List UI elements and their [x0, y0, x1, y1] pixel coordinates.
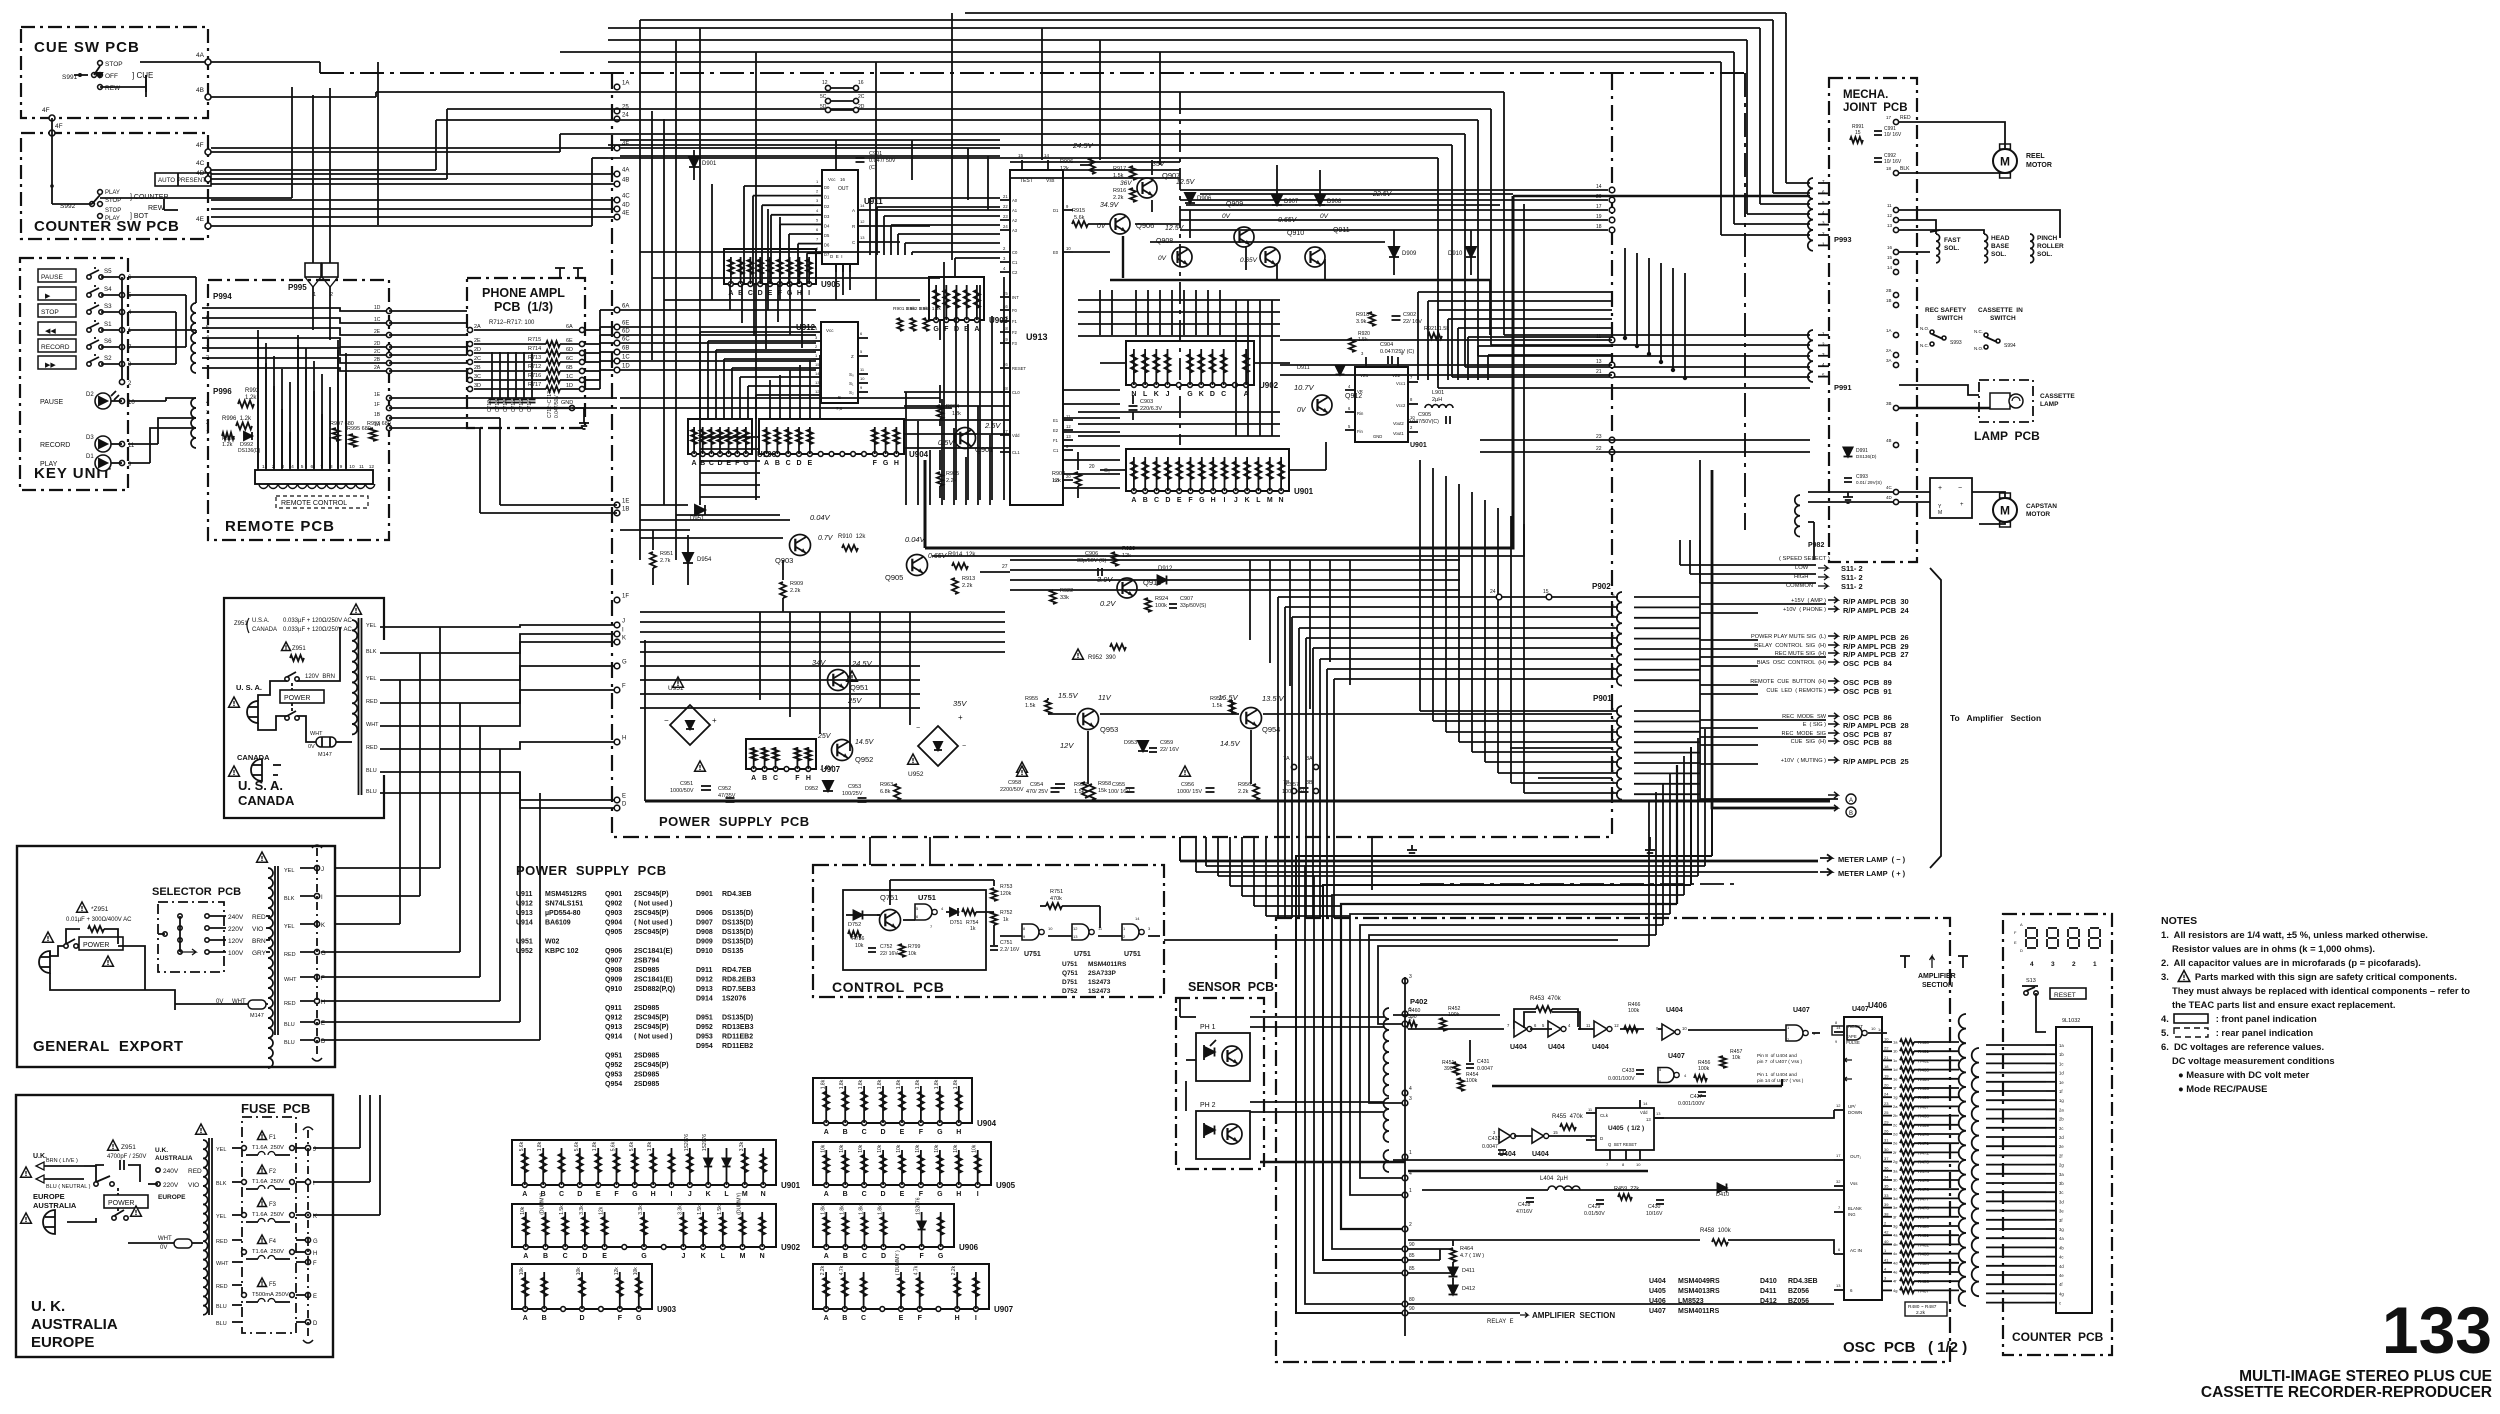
svg-text:20: 20	[1089, 464, 1095, 470]
svg-text:1a: 1a	[2059, 1043, 2064, 1048]
OSC PCB board outline	[1276, 918, 1950, 1362]
svg-text:1c: 1c	[2059, 1061, 2063, 1066]
svg-text:D2: D2	[86, 392, 94, 398]
IC U911	[822, 170, 858, 264]
svg-text:2: 2	[2072, 961, 2076, 968]
svg-text:RED: RED	[188, 1168, 202, 1175]
svg-text:RD4.7EB: RD4.7EB	[722, 967, 752, 974]
svg-text:REEL: REEL	[2026, 153, 2045, 160]
svg-text:RD11EB2: RD11EB2	[722, 1043, 753, 1050]
svg-text:12k: 12k	[599, 1206, 605, 1215]
svg-text:U906: U906	[959, 1243, 979, 1252]
svg-text:RELAY E: RELAY E	[1487, 1319, 1513, 1325]
PHONE AMPL PCB board outline	[467, 278, 585, 428]
diode D911	[1336, 366, 1345, 375]
svg-text:A: A	[2020, 922, 2023, 927]
bridge U951	[670, 705, 710, 745]
svg-text:PINCH: PINCH	[2037, 235, 2058, 242]
terminal 17 RED	[1893, 119, 1898, 124]
remote internal rows	[202, 308, 386, 311]
resistor array U907	[746, 739, 816, 769]
inverter U404 a	[1514, 1021, 1527, 1037]
svg-text:16: 16	[1887, 245, 1893, 250]
svg-text:M: M	[1267, 497, 1273, 504]
svg-text:4c: 4c	[2059, 1255, 2063, 1260]
svg-text:YEL: YEL	[216, 1147, 226, 1153]
svg-text:1.5k: 1.5k	[1025, 703, 1036, 709]
svg-text:1.8k: 1.8k	[592, 1141, 598, 1151]
svg-text:C956: C956	[1181, 782, 1194, 788]
svg-text:F: F	[795, 775, 800, 782]
svg-text:C1: C1	[1012, 260, 1018, 265]
svg-text:D911: D911	[696, 967, 712, 974]
svg-text:N.O.: N.O.	[1974, 346, 1983, 351]
svg-text:I: I	[975, 1315, 977, 1322]
svg-text:B: B	[543, 1253, 548, 1260]
svg-text:C: C	[748, 290, 753, 297]
svg-text:2SD882(P,Q): 2SD882(P,Q)	[634, 986, 675, 993]
svg-text:1e: 1e	[2059, 1080, 2064, 1085]
svg-text:OSC PCB 91: OSC PCB 91	[1843, 687, 1892, 696]
svg-text:Q952: Q952	[855, 755, 873, 764]
GENERAL EXPORT board outline	[17, 846, 335, 1067]
svg-text:13: 13	[1066, 434, 1071, 439]
svg-text:G: G	[622, 660, 627, 666]
U903 wires	[954, 258, 956, 277]
svg-text:CASSETTE IN: CASSETTE IN	[1978, 307, 2023, 314]
top mid bus to P991	[376, 91, 1504, 93]
svg-text:R715: R715	[528, 337, 541, 343]
svg-text:14: 14	[1135, 916, 1140, 921]
top dash-dot boundary wire	[320, 72, 1745, 74]
svg-text:2.2k: 2.2k	[1238, 789, 1249, 795]
svg-text:C432: C432	[1488, 1136, 1501, 1142]
7-segment display	[2027, 927, 2036, 929]
P993 pin stubs	[1818, 182, 1829, 184]
svg-text:Q914: Q914	[605, 1034, 622, 1041]
svg-text:R480 ~ R487: R480 ~ R487	[1908, 1304, 1937, 1310]
svg-text:OUT₁: OUT₁	[1850, 1154, 1861, 1159]
svg-text:A: A	[824, 1191, 829, 1198]
svg-text:INT: INT	[1012, 295, 1019, 300]
svg-text:DS135: DS135	[722, 948, 744, 955]
svg-text:D907: D907	[696, 920, 713, 927]
svg-text:R914 12k: R914 12k	[948, 552, 976, 558]
svg-text:2c: 2c	[2059, 1126, 2063, 1131]
svg-text:16: 16	[858, 80, 864, 86]
svg-text:E: E	[900, 1191, 905, 1198]
switch S2	[87, 362, 91, 366]
capacitor C901	[856, 157, 865, 159]
svg-text:2a: 2a	[1893, 1104, 1898, 1109]
svg-text:D1: D1	[1053, 208, 1059, 213]
svg-text:29: 29	[1884, 1119, 1889, 1124]
svg-text:S6: S6	[104, 338, 112, 345]
svg-text:0V: 0V	[1320, 213, 1329, 220]
svg-text:C955: C955	[1112, 782, 1125, 788]
svg-text:10k: 10k	[855, 943, 864, 949]
svg-text:REMOTE PCB: REMOTE PCB	[225, 518, 335, 535]
svg-text:JOINT PCB: JOINT PCB	[1843, 102, 1908, 114]
svg-text:10k: 10k	[520, 1206, 526, 1215]
svg-text:D951: D951	[690, 516, 705, 522]
capacitor C902 22/16V	[1392, 315, 1401, 317]
svg-text:UP/: UP/	[1848, 1104, 1856, 1109]
svg-text:36V: 36V	[1120, 180, 1132, 187]
svg-text:0.04V: 0.04V	[905, 535, 926, 544]
svg-text:C: C	[1154, 497, 1159, 504]
svg-text:F: F	[614, 1191, 619, 1198]
svg-text:SENSOR PCB: SENSOR PCB	[1188, 980, 1274, 994]
svg-text:WHT: WHT	[310, 731, 323, 737]
svg-text:4C: 4C	[622, 194, 630, 200]
svg-text:11: 11	[359, 464, 364, 470]
svg-text:G: G	[313, 1239, 318, 1245]
svg-text:● Mode REC/PAUSE: ● Mode REC/PAUSE	[2178, 1083, 2267, 1094]
svg-text:K: K	[1154, 391, 1159, 398]
svg-text:1A: 1A	[622, 81, 629, 87]
svg-text:D411: D411	[1462, 1268, 1475, 1274]
svg-text:R464: R464	[1460, 1246, 1473, 1252]
svg-text:REMOTE CONTROL: REMOTE CONTROL	[281, 500, 347, 507]
resistor wire row 2A-6A	[467, 327, 472, 332]
svg-text:PAUSE: PAUSE	[41, 274, 63, 281]
svg-text:P994: P994	[213, 292, 232, 301]
svg-text:0.04V: 0.04V	[810, 513, 831, 522]
svg-text:S₁: S₁	[849, 381, 854, 386]
svg-text:S994: S994	[2004, 343, 2016, 349]
svg-text:H: H	[622, 736, 626, 742]
to amplifier bracket	[1930, 568, 1941, 868]
P982 wires to capstan	[1808, 491, 1893, 493]
svg-text:M147: M147	[250, 1013, 264, 1019]
svg-text:7A: 7A	[1283, 756, 1290, 762]
svg-text:I: I	[808, 290, 810, 297]
svg-text:CASSETTE RECORDER-REPRODUCER: CASSETTE RECORDER-REPRODUCER	[2201, 1384, 2492, 1401]
svg-text:REC SAFETY: REC SAFETY	[1925, 307, 1967, 314]
svg-text:POWER SUPPLY PCB: POWER SUPPLY PCB	[659, 814, 810, 829]
svg-text:F: F	[873, 460, 878, 467]
svg-text:P995: P995	[288, 283, 307, 292]
svg-text:1F: 1F	[374, 402, 380, 408]
svg-text:2D: 2D	[858, 104, 865, 110]
svg-text:32: 32	[1836, 1179, 1841, 1184]
notes warn triangle	[2178, 971, 2190, 982]
svg-text:1: 1	[1409, 1150, 1412, 1156]
svg-text:A: A	[974, 326, 979, 333]
svg-text:D954: D954	[697, 557, 712, 563]
svg-text:3a: 3a	[2059, 1172, 2064, 1177]
svg-text:+: +	[1938, 485, 1942, 492]
svg-text:RED: RED	[284, 952, 296, 958]
svg-text:D: D	[579, 1315, 584, 1322]
switch POWER	[280, 690, 324, 703]
svg-text:35V: 35V	[953, 699, 967, 708]
svg-text:1.8k: 1.8k	[878, 1205, 884, 1215]
thick bus power to P993	[925, 196, 1513, 548]
svg-text:21: 21	[1884, 1055, 1889, 1060]
svg-text:D: D	[881, 1191, 886, 1198]
svg-text:P996: P996	[213, 387, 232, 396]
svg-text:2A: 2A	[374, 365, 381, 371]
notes front panel box	[2174, 1014, 2208, 1023]
svg-text:Vcc: Vcc	[828, 177, 836, 182]
svg-text:AMPLIFIER SECTION: AMPLIFIER SECTION	[1532, 1311, 1615, 1320]
svg-text:D412: D412	[1462, 1286, 1475, 1292]
svg-text:1g: 1g	[2059, 1098, 2064, 1103]
svg-text:BLK: BLK	[284, 896, 295, 902]
svg-text:S11- 2: S11- 2	[1841, 573, 1863, 582]
svg-text:R924: R924	[1155, 596, 1168, 602]
svg-text:M: M	[740, 1253, 746, 1260]
svg-text:D906: D906	[1197, 196, 1212, 202]
POWER SUPPLY PCB board outline	[612, 73, 1612, 837]
svg-text:3A: 3A	[1886, 358, 1892, 363]
KEY UNIT board outline	[20, 258, 128, 490]
svg-text:24: 24	[1003, 224, 1008, 229]
thick Vss rail osc	[1492, 1085, 1782, 1088]
terminal 4B 4C 4D	[1893, 442, 1898, 447]
svg-text:10k: 10k	[953, 1144, 959, 1153]
svg-text:U405 ( 1/2 ): U405 ( 1/2 )	[1608, 1125, 1644, 1132]
svg-text:34: 34	[1884, 1175, 1889, 1180]
plug general export	[43, 932, 54, 942]
svg-text:A: A	[1131, 497, 1136, 504]
svg-text:2SA733P: 2SA733P	[1088, 970, 1116, 977]
verticals from top bus into power supply	[639, 20, 641, 505]
svg-text:ING: ING	[1848, 1212, 1855, 1217]
svg-text:CLk: CLk	[1600, 1113, 1609, 1118]
RESET box	[2050, 988, 2086, 999]
svg-text:R951: R951	[660, 551, 673, 557]
svg-text:D952: D952	[805, 786, 818, 792]
capacitor Z951 uk	[108, 1140, 119, 1150]
svg-text:D: D	[582, 1253, 587, 1260]
left edge terminals	[614, 84, 620, 90]
resistor R714 row 2D-6D	[467, 350, 472, 355]
svg-text:4700pF / 250V: 4700pF / 250V	[107, 1154, 146, 1160]
osc bottom wires	[1408, 1239, 1700, 1241]
svg-text:D910: D910	[1448, 251, 1463, 257]
svg-text:U751: U751	[1124, 951, 1141, 958]
svg-text:MOTOR: MOTOR	[2026, 511, 2050, 518]
svg-text:D: D	[313, 1321, 318, 1327]
bracket pins top	[559, 268, 561, 278]
svg-text:3A: 3A	[1306, 756, 1313, 762]
svg-text:DS135(D): DS135(D)	[722, 939, 753, 946]
svg-text:4.7k: 4.7k	[914, 1265, 920, 1275]
svg-text:P982: P982	[1808, 542, 1824, 549]
svg-text:SWITCH: SWITCH	[1990, 315, 2016, 322]
svg-text:4F: 4F	[42, 107, 50, 114]
terminal 4C	[205, 167, 211, 173]
SELECTOR PCB outline	[158, 902, 224, 972]
svg-text:J: J	[688, 1191, 692, 1198]
fast solenoid	[1936, 234, 1940, 263]
svg-text:R916: R916	[1113, 188, 1126, 194]
svg-text:R922: R922	[1060, 588, 1073, 594]
svg-text:F4: F4	[269, 1239, 277, 1245]
svg-text:10: 10	[1066, 246, 1071, 251]
svg-text:1.8k: 1.8k	[915, 1079, 921, 1089]
svg-text:Q907: Q907	[605, 958, 622, 965]
svg-text:10k: 10k	[839, 1144, 845, 1153]
resistor array U905	[724, 249, 816, 284]
svg-text:12: 12	[1836, 1103, 1841, 1108]
svg-text:0.001/100V: 0.001/100V	[1678, 1101, 1705, 1107]
terminals 23 22	[1609, 437, 1615, 443]
capacitor C991 10/16V	[1874, 130, 1882, 132]
svg-text:220V: 220V	[163, 1182, 179, 1189]
svg-text:2SC1841(E): 2SC1841(E)	[634, 977, 673, 984]
svg-text:3e: 3e	[2059, 1209, 2064, 1214]
svg-text:K: K	[706, 1191, 711, 1198]
svg-text:U902: U902	[781, 1243, 801, 1252]
svg-text:9: 9	[340, 464, 343, 470]
svg-text:R751: R751	[1050, 889, 1063, 895]
IC U901 regulator	[1355, 367, 1408, 442]
svg-text:13.5 V: 13.5 V	[1262, 694, 1285, 703]
svg-text:B: B	[843, 1129, 848, 1136]
svg-text:5.6k: 5.6k	[629, 1141, 635, 1151]
svg-text:To Amplifier Section: To Amplifier Section	[1950, 713, 2041, 723]
svg-text:2: 2	[206, 420, 209, 426]
svg-text:5C: 5C	[820, 94, 827, 100]
svg-text:H: H	[313, 1251, 317, 1257]
counter connector coil	[1959, 1014, 1966, 1306]
svg-text:1.8k: 1.8k	[953, 1079, 959, 1089]
svg-text:1S2076: 1S2076	[702, 1134, 708, 1151]
terminal 2	[121, 277, 123, 382]
svg-text:4e: 4e	[1893, 1270, 1898, 1275]
svg-text:2c: 2c	[1893, 1122, 1897, 1127]
wires Q953 Q954 area	[1048, 713, 1076, 715]
svg-text:S2: S2	[104, 355, 112, 362]
svg-text:100k: 100k	[1155, 603, 1167, 609]
svg-text:RD4.3EB: RD4.3EB	[1788, 1278, 1818, 1285]
svg-text:5.6k: 5.6k	[611, 1141, 617, 1151]
svg-text:R752: R752	[1000, 910, 1013, 916]
svg-text:W02: W02	[545, 939, 560, 946]
svg-text:14.5V: 14.5V	[1220, 739, 1241, 748]
svg-text:E2: E2	[1053, 428, 1059, 433]
svg-text:F: F	[919, 1129, 924, 1136]
svg-text:0.047/25V (C): 0.047/25V (C)	[1380, 349, 1414, 355]
svg-text:B: B	[762, 775, 767, 782]
svg-text:5D: 5D	[820, 104, 827, 110]
terminals 24 15	[1496, 594, 1502, 600]
svg-text:U905: U905	[821, 280, 841, 289]
U911 area wires	[835, 140, 837, 170]
svg-text:U405: U405	[1649, 1288, 1666, 1295]
svg-text:2SD985: 2SD985	[634, 1081, 659, 1088]
svg-text:] CUE: ] CUE	[132, 71, 153, 80]
resistor array U902 bottom	[512, 1204, 776, 1247]
svg-text:Z951: Z951	[234, 621, 248, 627]
svg-text:A1: A1	[1012, 208, 1018, 213]
svg-text:1.8k: 1.8k	[537, 1141, 543, 1151]
svg-text:PLAY: PLAY	[40, 461, 58, 468]
svg-text:17: 17	[1836, 1153, 1841, 1158]
svg-text:0.033µF + 120Ω/250V AC: 0.033µF + 120Ω/250V AC	[283, 627, 352, 633]
osc frame left feeders	[1205, 837, 1207, 866]
svg-text:2e: 2e	[1893, 1141, 1898, 1146]
transistor Q905	[907, 555, 928, 576]
svg-text:1.8k: 1.8k	[839, 1079, 845, 1089]
svg-text:OSC PCB 89: OSC PCB 89	[1843, 678, 1892, 687]
control pcb feed wires	[929, 837, 931, 865]
resistor ladder R460-R487	[1882, 1041, 1892, 1043]
solenoid wires	[1899, 210, 2060, 238]
svg-text:4A: 4A	[622, 168, 629, 174]
svg-text:D901: D901	[702, 161, 717, 167]
uk fuse bus to right	[313, 1147, 360, 1149]
svg-text:CL1: CL1	[1012, 450, 1020, 455]
svg-text:0.7V: 0.7V	[818, 535, 834, 542]
svg-text:F: F	[313, 1261, 317, 1267]
svg-text:R712–R717: 100: R712–R717: 100	[489, 320, 535, 326]
svg-text:D909: D909	[696, 939, 713, 946]
warning triangle transformer	[351, 604, 362, 614]
svg-text:N: N	[761, 1191, 766, 1198]
svg-text:RD8.2EB3: RD8.2EB3	[722, 977, 756, 984]
svg-text:R918: R918	[1356, 312, 1369, 318]
svg-text:10k: 10k	[934, 1144, 940, 1153]
svg-text:4d: 4d	[2059, 1264, 2064, 1269]
svg-text:240V: 240V	[163, 1168, 179, 1175]
svg-text:R712: R712	[528, 364, 541, 370]
svg-text:6C: 6C	[622, 337, 630, 343]
svg-text:10: 10	[860, 376, 865, 381]
switch S4	[87, 293, 91, 297]
svg-text:12.5V: 12.5V	[1165, 225, 1185, 232]
svg-text:REMOTE CUE BUTTON (H): REMOTE CUE BUTTON (H)	[1750, 679, 1826, 685]
svg-text:18: 18	[1884, 1064, 1889, 1069]
vertical bundle right of U912	[943, 262, 945, 500]
svg-text:Vcc1: Vcc1	[1396, 381, 1406, 386]
switch S1	[87, 328, 91, 332]
svg-text:4.7k: 4.7k	[839, 1265, 845, 1275]
U912 input mesh	[699, 332, 701, 419]
svg-text:R/P AMPL PCB 27: R/P AMPL PCB 27	[1843, 650, 1909, 659]
svg-text:Q904: Q904	[605, 920, 622, 927]
svg-text:WHT: WHT	[216, 1261, 229, 1267]
head base solenoid	[1984, 234, 1988, 263]
svg-text:M147: M147	[318, 752, 332, 758]
sensor wires	[1185, 1081, 1187, 1111]
transistor Q911	[1305, 247, 1325, 267]
svg-text:L404 2µH: L404 2µH	[1540, 1176, 1568, 1182]
svg-text:BIAS OSC CONTROL (H): BIAS OSC CONTROL (H)	[1757, 660, 1826, 666]
svg-text:C: C	[1221, 391, 1226, 398]
power supply interior verticals left	[639, 505, 641, 560]
resistor array U906	[688, 419, 752, 454]
svg-text:+10V ( PHONE ): +10V ( PHONE )	[1783, 607, 1826, 613]
svg-text:12: 12	[822, 80, 828, 86]
svg-text:OSC PCB 84: OSC PCB 84	[1843, 659, 1893, 668]
svg-text:Vcc2: Vcc2	[1396, 403, 1406, 408]
svg-text:C715: C715	[511, 400, 517, 412]
svg-text:CL0: CL0	[1012, 390, 1020, 395]
svg-text:A: A	[824, 1253, 829, 1260]
svg-text:10k: 10k	[519, 1267, 525, 1276]
mesh U913 top row	[1010, 161, 1180, 163]
svg-text:2B: 2B	[374, 357, 381, 363]
svg-text:P991: P991	[1834, 383, 1852, 392]
svg-text:10: 10	[1636, 1162, 1641, 1167]
svg-text:RED: RED	[216, 1284, 228, 1290]
svg-text:G: G	[641, 1253, 647, 1260]
